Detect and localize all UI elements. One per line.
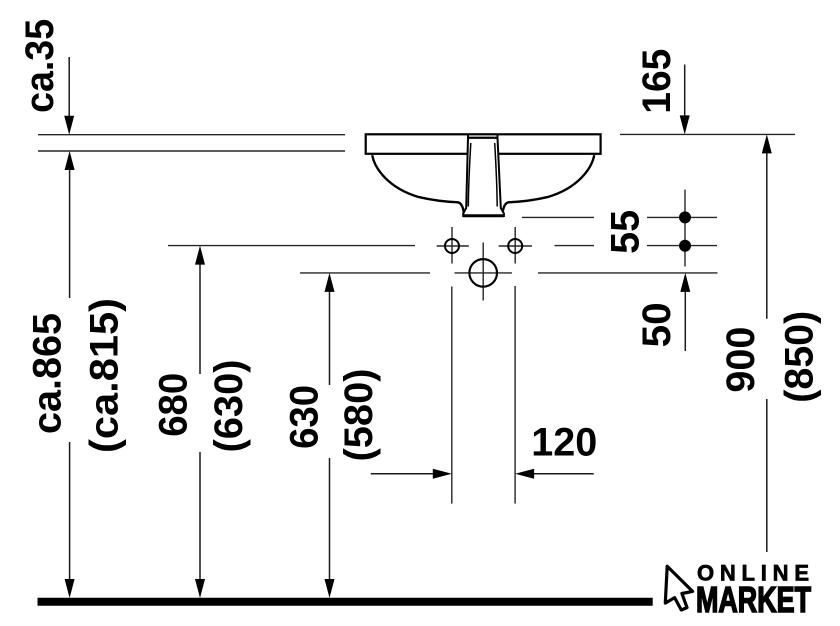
arrowhead 900 up xyxy=(762,134,772,153)
55 lower reference line right segment xyxy=(647,245,717,247)
dimension 630 vertical line lower part xyxy=(329,458,331,594)
mounting dot upper xyxy=(679,211,691,223)
dimension 680 vertical line lower part xyxy=(199,452,201,594)
svg-text:(580): (580) xyxy=(337,369,381,462)
svg-text:900: 900 xyxy=(719,327,763,393)
basin bowl left outline xyxy=(372,155,464,212)
mounting dot lower xyxy=(679,240,691,252)
svg-text:(ca.815): (ca.815) xyxy=(83,298,127,453)
vertical line through mounting dots xyxy=(684,190,686,267)
drain level line right segment xyxy=(538,272,718,274)
pedestal width extension line left xyxy=(451,287,453,504)
dimension 630 vertical line upper part xyxy=(329,277,331,386)
faucet hole right crosshair horizontal xyxy=(499,245,532,247)
faucet hole right crosshair vertical xyxy=(514,227,516,264)
165 reference line at basin top right xyxy=(620,133,795,135)
arrowhead ca.35 down xyxy=(64,116,74,135)
basin rim rectangle xyxy=(366,134,601,154)
overflow column body xyxy=(463,138,504,216)
countertop bottom line xyxy=(38,150,345,152)
svg-text:120: 120 xyxy=(531,421,597,465)
faucet hole left crosshair horizontal xyxy=(437,245,469,247)
overflow column top edge xyxy=(468,137,498,139)
55 lower reference line left segment xyxy=(555,245,595,247)
logo cursor arrow xyxy=(665,566,692,610)
arrowhead 680 down at baseline xyxy=(195,579,205,598)
dimension ca.865 vertical line lower part xyxy=(69,442,71,594)
arrowhead 630 up xyxy=(325,273,335,292)
faucet hole right circle xyxy=(508,239,522,253)
arrowhead 50 up xyxy=(680,273,690,292)
dimension 165 arrow line xyxy=(684,65,686,131)
svg-text:50: 50 xyxy=(635,302,679,347)
pedestal width extension line right xyxy=(514,286,516,504)
faucet hole left crosshair vertical xyxy=(451,227,453,264)
dimension 900 vertical line lower part xyxy=(766,399,768,552)
dimension ca.865 vertical line upper part xyxy=(69,155,71,298)
svg-text:680: 680 xyxy=(152,373,196,437)
arrowhead ca.865 down at baseline xyxy=(65,579,75,598)
55 upper reference line left segment xyxy=(522,216,594,218)
arrowhead 680 up xyxy=(195,246,205,265)
svg-text:165: 165 xyxy=(635,49,679,114)
drain circle xyxy=(469,259,497,287)
dimension 120 arrow line right xyxy=(518,473,594,475)
svg-text:ca.35: ca.35 xyxy=(18,19,62,113)
arrowhead 165 down xyxy=(680,115,690,134)
55 upper reference line right segment xyxy=(647,216,717,218)
arrowhead 630 down at baseline xyxy=(325,579,335,598)
dimension 900 vertical line upper part xyxy=(766,139,768,319)
overflow column right tick to rim top xyxy=(497,135,499,138)
svg-text:(850): (850) xyxy=(777,311,821,403)
arrowhead ca.865 up xyxy=(65,151,75,170)
dimension ca.35 arrow line xyxy=(69,57,767,594)
svg-text:ca.865: ca.865 xyxy=(26,313,70,434)
dimension 50 arrow line xyxy=(684,277,686,351)
drain crosshair vertical xyxy=(482,243,484,301)
countertop top line xyxy=(38,134,345,136)
basin bowl right outline xyxy=(503,155,595,212)
overflow column base bar xyxy=(463,214,504,217)
floor baseline xyxy=(38,598,653,606)
680 reference line at faucet hole level xyxy=(168,245,415,247)
arrowhead 120 pointing left xyxy=(515,469,534,479)
630 reference line at drain level xyxy=(300,272,430,274)
arrowhead 120 pointing right xyxy=(433,469,452,479)
svg-text:MARKET: MARKET xyxy=(696,579,811,620)
overflow column inner left line xyxy=(468,143,471,207)
dimension 680 vertical line upper part xyxy=(199,249,201,374)
overflow column left tick to rim top xyxy=(467,135,469,138)
svg-text:55: 55 xyxy=(604,210,648,254)
svg-text:630: 630 xyxy=(283,385,327,449)
faucet hole left circle xyxy=(445,239,459,253)
overflow column inner right line xyxy=(495,143,498,207)
dimension 120 arrow line left xyxy=(371,473,448,475)
drain crosshair horizontal xyxy=(455,272,512,274)
svg-text:(630): (630) xyxy=(207,360,251,453)
